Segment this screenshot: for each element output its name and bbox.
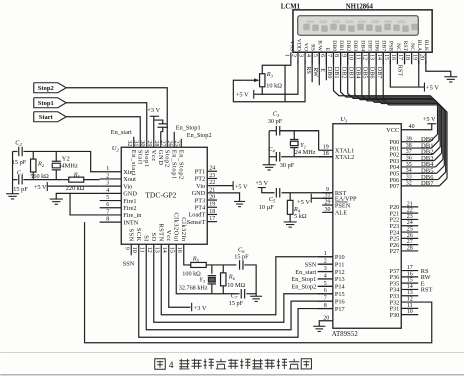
svg-text:DB2: DB2 — [340, 67, 347, 79]
wire ground bus left of crystal — [269, 130, 276, 132]
svg-text:+3 V: +3 V — [147, 107, 160, 114]
svg-text:+5 V: +5 V — [34, 184, 47, 191]
svg-text:15: 15 — [169, 247, 175, 253]
+5V supply at LCD backlight — [423, 83, 425, 92]
svg-text:P27: P27 — [389, 248, 399, 255]
svg-text:26: 26 — [407, 233, 413, 239]
svg-text:NC: NC — [409, 43, 415, 51]
LCD pin 19 BLA — [418, 52, 420, 64]
svg-text:32.768 kHz: 32.768 kHz — [179, 284, 208, 291]
svg-text:DB5: DB5 — [362, 67, 369, 79]
svg-text:Stop2: Stop2 — [38, 85, 54, 92]
pin 33 P06 DB6 — [401, 179, 438, 181]
svg-text:Start: Start — [136, 150, 143, 165]
pin 18 XTAL2 — [319, 156, 333, 158]
LCD pin 1 VSS — [290, 52, 292, 64]
pin 32 P07 DB7 — [401, 185, 439, 187]
pin 1 P10 — [318, 256, 333, 258]
svg-text:11: 11 — [139, 247, 145, 253]
wire Clk32In pin 16 to R5 — [184, 244, 188, 265]
svg-text:En_Stop1: En_Stop1 — [291, 276, 316, 283]
svg-text:GND: GND — [192, 190, 206, 197]
pin 24 P23 — [401, 225, 418, 227]
svg-text:Fire2: Fire2 — [123, 205, 136, 212]
ground at R4 — [284, 221, 297, 223]
TDC pin 17 SenseT — [207, 221, 217, 223]
pin 30 ALE — [322, 211, 333, 213]
svg-text:NC: NC — [395, 43, 401, 51]
wire DB2 bus — [348, 52, 441, 147]
TDC pin 23 PT2 — [207, 177, 217, 179]
capacitor C7 15pF — [237, 293, 239, 295]
LCD pin 3 VO — [304, 52, 306, 64]
LCD pin 13 DB6 — [375, 52, 377, 64]
svg-text:DB3: DB3 — [347, 67, 354, 79]
LCD pin 17 RST — [404, 52, 406, 64]
wire RSTN to P10 bus — [161, 244, 333, 315]
svg-text:En_start: En_start — [130, 150, 137, 176]
svg-text:13: 13 — [154, 247, 160, 253]
pin 3 P12 — [318, 271, 333, 273]
svg-text:30: 30 — [325, 207, 331, 213]
ground at AT89S52 pin 20 — [313, 325, 325, 327]
svg-text:Start: Start — [39, 114, 54, 121]
wire DB6 bus — [376, 52, 446, 172]
svg-text:19: 19 — [323, 145, 329, 151]
svg-text:14: 14 — [407, 284, 413, 290]
pin 28 P27 — [401, 250, 418, 252]
wire Stop2 to pin 27 — [66, 88, 167, 148]
svg-text:6: 6 — [319, 54, 325, 57]
wire VSS to R3 top — [262, 64, 291, 74]
svg-text:37: 37 — [406, 149, 412, 155]
LCD pin 4 RS — [311, 52, 313, 64]
wire SO to P15 bus — [154, 244, 333, 322]
svg-text:+5 V: +5 V — [236, 91, 249, 98]
ground at C1/C2 — [6, 193, 19, 195]
svg-text:AT89S52: AT89S52 — [332, 331, 359, 338]
svg-text:SO: SO — [150, 233, 157, 242]
wire DB1 bus — [341, 52, 439, 140]
svg-text:RST: RST — [397, 65, 404, 77]
wire SCK to P17 bus — [139, 244, 333, 337]
net En_Stop1 at P13 — [318, 278, 333, 280]
svg-text:30 pF: 30 pF — [268, 118, 283, 125]
net En_Stop2 at P14 — [318, 285, 333, 287]
pin 37 P02 DB2 — [401, 153, 433, 155]
pin 36 P03 DB3 — [401, 160, 434, 162]
svg-text:DB0: DB0 — [331, 40, 337, 51]
wire Xin net top — [13, 150, 18, 152]
svg-text:40: 40 — [409, 124, 415, 130]
wire Fire_in to GND net — [70, 193, 100, 215]
pin 21 P20 — [401, 206, 418, 208]
svg-text:27: 27 — [407, 239, 413, 245]
wire DB5 bus — [369, 52, 444, 166]
svg-text:BLA: BLA — [416, 40, 422, 52]
svg-text:Clk32Out: Clk32Out — [172, 213, 179, 242]
svg-text:12: 12 — [407, 296, 413, 302]
svg-text:SSN: SSN — [123, 260, 135, 267]
svg-text:Fire_in: Fire_in — [123, 212, 142, 219]
svg-text:4: 4 — [106, 188, 109, 194]
svg-text:2: 2 — [291, 54, 297, 57]
svg-text:28: 28 — [407, 245, 413, 251]
wire R3 wiper to VO — [233, 60, 305, 102]
svg-text:4: 4 — [169, 361, 174, 371]
svg-text:XTAL2: XTAL2 — [335, 154, 354, 161]
svg-text:RS: RS — [305, 66, 312, 74]
LCD pin 11 DB4 — [361, 52, 363, 64]
LCD pin 5 R/W — [318, 52, 320, 64]
svg-text:560 kΩ: 560 kΩ — [30, 173, 49, 180]
svg-text:BLK: BLK — [423, 40, 429, 52]
svg-text:En_start: En_start — [295, 269, 316, 276]
pin 22 P21 — [401, 212, 418, 214]
chip U2 TDC-GP2 body — [121, 147, 207, 244]
TDC pin 18 LoadT — [207, 213, 217, 215]
pin 5 P14 — [318, 285, 333, 287]
svg-text:8: 8 — [106, 217, 109, 223]
svg-text:11: 11 — [355, 54, 361, 60]
LCD pin 6 E — [325, 52, 327, 64]
svg-text:+5 V: +5 V — [255, 180, 268, 187]
resistor R5 100k — [187, 264, 191, 266]
svg-text:10: 10 — [131, 247, 137, 253]
LCD pin 18 NC — [411, 52, 413, 64]
svg-text:RS: RS — [310, 44, 316, 51]
pin 20 GND wire — [319, 321, 333, 327]
junction XTAL1 top wire — [280, 130, 319, 132]
svg-text:DB1: DB1 — [333, 67, 340, 79]
TDC pin 5 Fire1 — [100, 200, 122, 202]
svg-text:39: 39 — [406, 137, 412, 143]
svg-text:4MHz: 4MHz — [61, 162, 78, 169]
svg-text:1: 1 — [106, 166, 109, 172]
pin 6 P15 — [318, 293, 333, 295]
net En_start at pin 32 — [133, 137, 135, 148]
svg-text:32: 32 — [406, 181, 412, 187]
svg-text:SSN: SSN — [127, 228, 134, 241]
resistor R6 10M — [222, 265, 224, 273]
svg-text:+5 V: +5 V — [297, 199, 310, 206]
svg-text:19: 19 — [411, 54, 417, 60]
svg-text:Stop1: Stop1 — [143, 150, 150, 168]
TDC pin 20 PT3 — [207, 199, 217, 201]
svg-text:10 MΩ: 10 MΩ — [227, 282, 245, 289]
svg-text:24: 24 — [209, 166, 215, 172]
svg-text:VSS: VSS — [288, 41, 294, 51]
net E from LCD pin 6 — [325, 52, 327, 80]
wire DB7 bus — [383, 52, 447, 178]
page artifact lines — [0, 352, 464, 354]
wire DB3 bus — [355, 52, 442, 153]
LCD module LCM1 NH12864 — [293, 10, 432, 52]
svg-text:P16: P16 — [335, 298, 345, 305]
svg-text:P10: P10 — [335, 254, 345, 261]
svg-text:PT3: PT3 — [195, 197, 206, 204]
svg-text:32: 32 — [126, 140, 132, 146]
svg-text:DB7: DB7 — [376, 67, 383, 79]
svg-text:SSN: SSN — [305, 261, 317, 268]
svg-text:En_Stop2: En_Stop2 — [187, 132, 212, 139]
svg-text:INTN: INTN — [123, 219, 138, 226]
pin 17 P37 net RS — [401, 270, 418, 272]
svg-text:23: 23 — [407, 214, 413, 220]
wire DB0 bus — [333, 52, 437, 134]
svg-text:2: 2 — [106, 173, 109, 179]
svg-text:5: 5 — [312, 54, 318, 57]
svg-text:16: 16 — [407, 271, 413, 277]
wire PSB and BLA to +5V — [390, 60, 424, 87]
TDC pin 4 GND — [100, 192, 122, 194]
svg-text:15 pF: 15 pF — [234, 254, 249, 261]
svg-text:VDD: VDD — [295, 39, 301, 51]
wire R3 bottom to +5V and VDD — [262, 60, 298, 94]
pin 7 P16 — [318, 300, 333, 302]
input flag Stop2 — [34, 83, 67, 93]
TDC pin 24 PT1 — [207, 170, 217, 172]
pin 8 P17 — [318, 308, 333, 310]
wire XTAL1 net — [280, 131, 319, 151]
svg-text:ALE: ALE — [335, 210, 347, 217]
wire C2 to Xin corner — [23, 151, 99, 171]
TDC pin 8 INTN — [100, 221, 122, 223]
svg-text:PSB: PSB — [388, 41, 394, 51]
capacitor C1 15pF — [13, 179, 18, 181]
pin 26 P25 — [401, 237, 418, 239]
pin 14 P34 net RST — [401, 288, 418, 290]
svg-text:E: E — [324, 48, 330, 52]
svg-text:P11: P11 — [335, 261, 345, 268]
TDC pin 22 Vio — [207, 185, 217, 187]
svg-text:En_Stop1: En_Stop1 — [176, 124, 201, 131]
+5V supply at VCC — [422, 124, 432, 130]
svg-text:P17: P17 — [335, 306, 345, 313]
svg-text:30 pF: 30 pF — [280, 162, 295, 169]
svg-text:23: 23 — [209, 173, 215, 179]
svg-text:DB7: DB7 — [381, 40, 387, 51]
net SSN at TDC pin 9 — [130, 244, 132, 255]
pin 39 P00 DB0 — [401, 141, 430, 143]
svg-text:DB6: DB6 — [374, 40, 380, 51]
svg-text:10 kΩ: 10 kΩ — [266, 83, 282, 90]
LCD pin 12 DB5 — [368, 52, 370, 64]
input flag Start — [34, 112, 67, 122]
pin 19 XTAL1 — [319, 149, 333, 151]
svg-text:DB1: DB1 — [338, 40, 344, 51]
wire Stop1 to pin 30 — [66, 103, 147, 148]
LCD pin 2 VDD — [297, 52, 299, 64]
wire Start to pin 31 — [66, 117, 140, 148]
LCD pin 9 DB2 — [347, 52, 349, 64]
svg-text:En_start: En_start — [111, 129, 132, 136]
svg-text:SI: SI — [142, 235, 149, 242]
svg-text:Clk32In: Clk32In — [180, 217, 187, 242]
svg-text:36: 36 — [406, 155, 412, 161]
svg-text:+5 V: +5 V — [426, 84, 439, 91]
+5V supply at R3 — [253, 90, 255, 99]
TDC pin 28 GND stub — [160, 132, 162, 148]
svg-text:P12: P12 — [335, 269, 345, 276]
net RST from LCD pin 17 — [404, 52, 406, 64]
svg-text:DB5: DB5 — [366, 40, 372, 51]
svg-text:LoadT: LoadT — [188, 212, 205, 219]
net R/W from LCD pin 5 — [318, 52, 320, 85]
svg-text:P30: P30 — [389, 312, 399, 319]
svg-text:1: 1 — [283, 54, 289, 57]
svg-text:25: 25 — [407, 226, 413, 232]
pin 34 P05 DB5 — [401, 172, 437, 174]
LCD pin 16 NC — [396, 52, 398, 64]
ground bus left — [12, 151, 14, 193]
capacitor C2 15pF — [18, 147, 20, 157]
svg-text:13: 13 — [369, 54, 375, 60]
svg-text:P14: P14 — [335, 284, 346, 291]
svg-text:Vcc: Vcc — [150, 150, 157, 162]
LCD pin 15 PSB — [389, 52, 391, 64]
net En_Stop2 at pin 25 — [180, 139, 182, 148]
+3V supply at TDC Vcc pin 14 — [191, 303, 193, 312]
svg-text:9: 9 — [124, 247, 130, 250]
svg-text:E: E — [319, 68, 326, 72]
svg-text:RST: RST — [421, 287, 433, 294]
LCD pin 7 DB0 — [332, 52, 334, 64]
ground at LCD BLK — [444, 76, 457, 78]
svg-text:8: 8 — [333, 54, 339, 57]
LCD pin 8 DB1 — [340, 52, 342, 64]
input flag Stop1 — [34, 98, 67, 108]
pin 29 PSEN — [322, 204, 333, 206]
svg-text:17: 17 — [209, 216, 215, 222]
ground at 32k oscillator — [250, 295, 262, 297]
svg-text:PSEN: PSEN — [335, 202, 351, 209]
capacitor C4 30pF — [275, 152, 277, 162]
svg-text:15: 15 — [407, 278, 413, 284]
net En_Stop1 at pin 26 — [173, 132, 175, 148]
svg-text:Stop2: Stop2 — [163, 150, 170, 168]
potentiometer R3 — [260, 74, 265, 87]
wire C6 to ground corner — [244, 265, 256, 296]
svg-text:19: 19 — [209, 202, 215, 208]
svg-text:15: 15 — [383, 54, 389, 60]
ground at TDC pin 21 — [234, 200, 245, 202]
svg-text:En_Stop1: En_Stop1 — [170, 150, 177, 180]
net RS from LCD pin 4 — [311, 52, 313, 82]
svg-text:20: 20 — [209, 194, 215, 200]
svg-text:VO: VO — [302, 43, 308, 51]
svg-text:15 pF: 15 pF — [229, 300, 244, 307]
svg-text:RW: RW — [312, 67, 319, 77]
pin 16 P36 net RW — [401, 276, 418, 278]
ground at TDC GND pin — [50, 198, 63, 200]
caption figure 4 — [155, 359, 166, 370]
ground at 24MHz oscillator — [263, 164, 276, 166]
resistor R4 5k — [289, 193, 291, 201]
svg-text:18: 18 — [209, 209, 215, 215]
wire INTN to P32 — [85, 222, 432, 343]
svg-text:Vio: Vio — [123, 183, 132, 190]
svg-text:DB3: DB3 — [352, 40, 358, 51]
TDC pin 6 Fire2 — [100, 207, 122, 209]
svg-text:Vcc: Vcc — [165, 230, 172, 242]
svg-text:17: 17 — [407, 265, 413, 271]
pin 25 P24 — [401, 231, 418, 233]
svg-text:35: 35 — [406, 162, 412, 168]
LCD pin 14 DB7 — [382, 52, 384, 64]
resistor R2 560k — [32, 151, 34, 159]
decoupling capacitor at Vcc/GND — [154, 120, 163, 124]
svg-text:Vio: Vio — [196, 183, 205, 190]
svg-text:+5 V: +5 V — [235, 184, 248, 191]
svg-text:38: 38 — [406, 143, 412, 149]
svg-text:PT4: PT4 — [195, 204, 206, 211]
svg-text:+3 V: +3 V — [194, 305, 207, 312]
svg-text:14: 14 — [376, 54, 382, 60]
pin 15 P35 net E — [401, 282, 418, 284]
wire XTAL2 net with C4 — [281, 156, 333, 158]
svg-text:RST: RST — [402, 41, 408, 52]
wire pin 4 GND to ground — [56, 193, 99, 199]
pin 9 RST — [322, 192, 333, 194]
TDC pin 19 PT4 — [207, 206, 217, 208]
svg-text:+5 V: +5 V — [423, 116, 436, 123]
svg-text:20: 20 — [418, 54, 424, 60]
svg-text:P07: P07 — [389, 183, 399, 190]
svg-text:12: 12 — [146, 247, 152, 253]
svg-text:24 MHz: 24 MHz — [295, 149, 316, 156]
svg-text:LCM1: LCM1 — [281, 3, 301, 10]
svg-text:Xout: Xout — [123, 176, 136, 183]
LCD pin 20 BLK — [425, 52, 427, 64]
svg-text:17: 17 — [397, 54, 403, 60]
TDC pin 3 Vio — [100, 185, 122, 187]
pin 10 P30 — [401, 314, 418, 316]
svg-text:DB4: DB4 — [359, 40, 365, 51]
wire BLK to ground — [426, 60, 451, 77]
svg-text:22: 22 — [407, 208, 413, 214]
svg-text:15 pF: 15 pF — [12, 159, 27, 166]
pin 13 P33 — [401, 295, 418, 297]
svg-text:En_Stop2: En_Stop2 — [177, 150, 184, 180]
svg-text:22: 22 — [209, 180, 215, 186]
svg-text:DB2: DB2 — [345, 40, 351, 51]
LCD pin 10 DB3 — [354, 52, 356, 64]
svg-text:DB6: DB6 — [369, 67, 376, 79]
svg-text:PT1: PT1 — [195, 168, 206, 175]
svg-text:6: 6 — [106, 202, 109, 208]
pin 31 EA/VPP — [322, 197, 333, 199]
capacitor C3 30pF — [275, 126, 277, 136]
capacitor C5 10uF — [275, 188, 277, 198]
svg-text:14: 14 — [161, 247, 167, 253]
svg-text:33: 33 — [406, 174, 412, 180]
svg-text:5: 5 — [106, 195, 109, 201]
svg-text:10: 10 — [347, 54, 353, 60]
svg-text:P13: P13 — [335, 276, 345, 283]
svg-text:PT2: PT2 — [195, 176, 206, 183]
svg-text:21: 21 — [407, 201, 413, 207]
wire Vcc pin 14 to +3V — [169, 244, 191, 307]
pin 4 P13 — [318, 278, 333, 280]
svg-text:3: 3 — [106, 181, 109, 187]
svg-text:7: 7 — [106, 209, 109, 215]
net SSN at P11 — [318, 263, 333, 265]
svg-text:11: 11 — [407, 303, 413, 309]
svg-text:SenseT: SenseT — [187, 219, 206, 226]
wire SI to P16 bus — [146, 244, 333, 330]
pin 2 P11 — [318, 263, 333, 265]
